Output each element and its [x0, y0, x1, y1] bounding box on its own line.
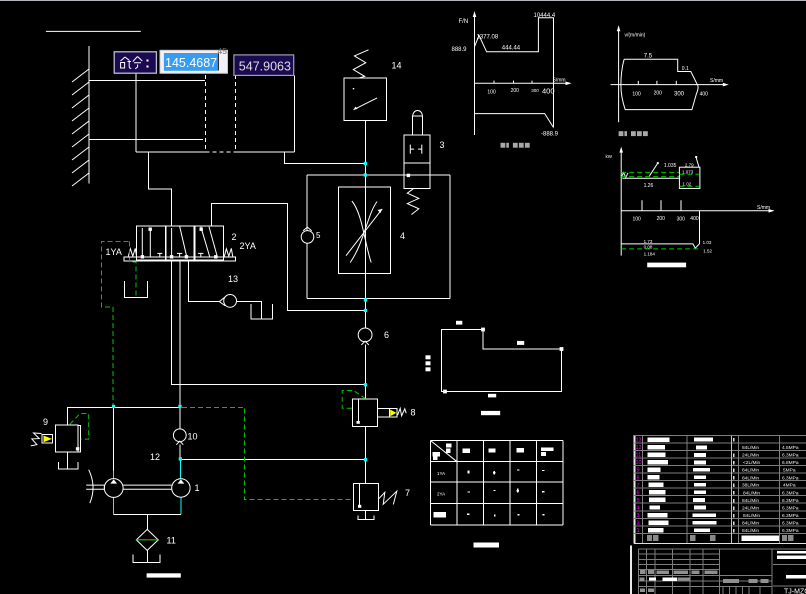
wire valve 2 B-port around enclosure [211, 204, 365, 311]
wire P-node through check valve 10 [179, 407, 181, 428]
svg-text:2YA: 2YA [437, 492, 445, 497]
svg-text:10: 10 [188, 432, 198, 442]
svg-text:1.073: 1.073 [682, 170, 694, 175]
svg-text:200: 200 [511, 88, 520, 94]
caption bar bottom left [147, 573, 181, 577]
fig2 ticks [637, 81, 639, 85]
fig1 y axis [474, 14, 476, 135]
fig1 load curve [475, 18, 554, 128]
main tank [133, 555, 160, 563]
svg-text:444.44: 444.44 [502, 46, 521, 52]
svg-text:400: 400 [690, 216, 699, 222]
stepped block diagram [426, 321, 564, 415]
svg-text:13: 13 [636, 438, 642, 444]
wire relief valve 9 to P-node [68, 407, 181, 425]
pump 2 (left) [104, 479, 123, 498]
svg-text:3: 3 [440, 140, 445, 150]
fig1 x axis [475, 82, 571, 84]
grip node white enclosure top [407, 174, 410, 177]
cycle table caption highlighted [474, 543, 499, 548]
wire check valve 6 to valve 8 [365, 345, 367, 400]
relief valve 9 [31, 425, 81, 452]
svg-text:547.9063: 547.9063 [239, 60, 291, 74]
svg-text:7: 7 [405, 488, 410, 498]
wire cylinder A-port to valve 2 [148, 152, 171, 226]
fig3 y axis [620, 149, 622, 255]
svg-text:10: 10 [636, 460, 642, 466]
parts list header [647, 535, 793, 541]
svg-text:300: 300 [677, 217, 686, 223]
pump shaft link [123, 484, 172, 486]
cylinder rod lower line [89, 138, 203, 140]
svg-text:45: 45 [218, 46, 228, 56]
svg-text:11: 11 [167, 536, 176, 546]
throttle valve 4 [339, 187, 391, 273]
solenoid 2YA coil [224, 248, 233, 256]
svg-text:6: 6 [384, 330, 389, 340]
svg-text:84L/Min: 84L/Min [742, 468, 759, 474]
svg-text:12: 12 [150, 452, 160, 462]
velocity diagram figure 2 [611, 25, 729, 136]
wire junction to valves 7-8 line [180, 459, 366, 461]
title block [630, 546, 806, 594]
svg-text:4: 4 [400, 231, 405, 241]
wire valve 9 to tank [67, 452, 69, 469]
fig2 y axis [618, 28, 620, 122]
svg-text:S/mm: S/mm [757, 205, 770, 211]
check valve 6 [358, 328, 372, 342]
svg-text:300: 300 [531, 88, 539, 93]
svg-text:84L/Min: 84L/Min [742, 475, 759, 481]
svg-text:13: 13 [228, 274, 238, 284]
pilot line green P-node to valve 7 [182, 407, 354, 499]
check valve 5 [301, 231, 314, 244]
fig3 ticks [641, 200, 643, 211]
wall (fixed support) [88, 46, 90, 183]
svg-text:8: 8 [411, 408, 416, 418]
svg-text:TJ-MZCP1: TJ-MZCP1 [784, 589, 806, 594]
svg-text:-888.9: -888.9 [541, 132, 559, 138]
svg-text:4.5MPa: 4.5MPa [782, 445, 799, 451]
svg-text:6.3MPa: 6.3MPa [782, 521, 799, 527]
electric motor coupling [89, 470, 93, 504]
svg-text:6.8MPa: 6.8MPa [782, 460, 799, 466]
check valve 13 [224, 295, 237, 308]
svg-text:200: 200 [657, 216, 666, 222]
svg-text:7: 7 [637, 483, 640, 489]
svg-text:10444.4: 10444.4 [534, 13, 556, 19]
fig1 ticks [493, 81, 495, 84]
main vertical line through throttle unit [365, 175, 367, 298]
parts list pressure values [782, 445, 799, 534]
svg-text:5: 5 [637, 498, 640, 504]
svg-text:v/(m/min): v/(m/min) [625, 33, 646, 39]
window top border [0, 0, 806, 2]
fig3 x axis [621, 210, 772, 212]
svg-text:14: 14 [392, 61, 402, 71]
svg-text:kW: kW [606, 154, 613, 159]
fig3 caption highlighted [647, 263, 686, 268]
svg-text:S/mm: S/mm [553, 78, 566, 84]
pilot line green valve 8 [342, 391, 365, 409]
fig3 bottom power line [621, 211, 699, 248]
dynamic input field 145.4687 [160, 50, 228, 73]
svg-text:1: 1 [195, 483, 200, 493]
svg-text:1377.08: 1377.08 [477, 35, 499, 41]
svg-text:84L/Min: 84L/Min [743, 490, 760, 496]
svg-text:4: 4 [637, 506, 640, 512]
svg-text:888.9: 888.9 [452, 47, 468, 53]
hidden piston line dashed right [234, 75, 236, 152]
stray line top left [46, 30, 141, 32]
wire cylinder rod-end to relief valve 14 node [285, 152, 366, 163]
dynamic input field 547.9063 [234, 55, 294, 76]
fig2 velocity curve [621, 59, 698, 109]
svg-text:6.3MPa: 6.3MPa [782, 506, 799, 512]
svg-text:8: 8 [637, 475, 640, 481]
tank under valve 9 [58, 462, 78, 469]
svg-text:5MPa: 5MPa [783, 468, 796, 474]
svg-text:3: 3 [637, 513, 640, 519]
svg-text:2.79: 2.79 [685, 163, 694, 168]
svg-text:1YA: 1YA [106, 247, 122, 257]
svg-text:0.1: 0.1 [682, 66, 689, 72]
parts list row numbers [636, 438, 642, 535]
cylinder rod upper line [89, 79, 205, 81]
wire suction to filter 11 [146, 515, 148, 530]
hidden bottom edge dashed [206, 151, 236, 153]
svg-text:1.73: 1.73 [644, 239, 653, 244]
command prompt box [114, 52, 156, 73]
pilot operated valve 8 [353, 399, 407, 426]
power diagram figure 3 [606, 147, 775, 268]
wire enclosure bottom to check valve 6 [365, 298, 367, 328]
wire P-line valve 2 down to pump node [179, 261, 181, 407]
fig1 caption [501, 143, 530, 148]
svg-text:9: 9 [43, 417, 48, 427]
svg-text:6.3MPa: 6.3MPa [782, 475, 799, 481]
fig3 power line white [622, 177, 680, 179]
wire relief valve 14 to enclosure node [365, 121, 367, 175]
wire pump 2 riser [113, 407, 115, 470]
svg-text:1.26: 1.26 [644, 183, 654, 189]
wire valve 2 A-line down to node [172, 261, 366, 385]
svg-text:1YA: 1YA [437, 471, 445, 476]
wire check valve 13 to tank [237, 302, 262, 319]
pilot drain green to tank under valve 2 [129, 241, 136, 296]
svg-text:<2L/Min: <2L/Min [743, 460, 761, 466]
fig3 leader 1.035 [650, 163, 658, 176]
svg-text:1.03: 1.03 [703, 240, 712, 245]
drive shaft [86, 484, 104, 486]
wire valve 7 to tank [365, 510, 367, 519]
svg-text:1.035: 1.035 [664, 163, 677, 169]
svg-text:100: 100 [487, 90, 496, 96]
svg-text:F/N: F/N [459, 19, 469, 25]
filter 11 [136, 529, 158, 550]
svg-text:84L/Min: 84L/Min [742, 521, 759, 527]
svg-text:24L/Min: 24L/Min [742, 453, 759, 459]
directional valve 2 [137, 226, 166, 260]
parts list name blocks [648, 437, 717, 532]
svg-text:2YA: 2YA [240, 241, 256, 251]
svg-text:6: 6 [637, 490, 640, 496]
svg-text:400: 400 [700, 92, 709, 98]
svg-text:0.08: 0.08 [644, 245, 653, 250]
load diagram figure 1 [452, 11, 572, 148]
fig3 box right [679, 167, 700, 188]
svg-text:84L/Min: 84L/Min [743, 513, 760, 519]
svg-text:300: 300 [674, 92, 685, 98]
tank under check valve 13 [251, 304, 273, 319]
svg-text:1: 1 [637, 528, 640, 534]
svg-text:38L/Min: 38L/Min [742, 483, 759, 489]
sequence valve 7 [354, 483, 397, 510]
svg-text:6.3MPa: 6.3MPa [782, 528, 799, 534]
parts list table [634, 435, 806, 544]
tank under valve 2 [124, 281, 147, 298]
svg-text:5: 5 [316, 231, 321, 240]
svg-text:200: 200 [654, 91, 663, 97]
parts list flow values [742, 445, 761, 534]
wire check valve 10 to junction [179, 444, 181, 459]
svg-text:S/mm: S/mm [710, 78, 723, 84]
svg-text:84L/Min: 84L/Min [742, 498, 759, 504]
svg-text:6.3MPa: 6.3MPa [782, 513, 799, 519]
svg-text:84L/Min: 84L/Min [742, 528, 759, 534]
wire T-line valve 2 to check valve 13 [189, 261, 219, 302]
svg-text:12: 12 [636, 445, 642, 451]
svg-text:1.02: 1.02 [683, 182, 692, 187]
relief valve 14 [344, 50, 387, 121]
svg-text:1.52: 1.52 [703, 249, 712, 254]
fig3 bottom green dashed [621, 248, 701, 250]
pressure switch 3 [404, 111, 430, 215]
fig2 x axis [611, 84, 728, 86]
svg-text:145.4687: 145.4687 [165, 56, 217, 70]
grip nodes cyan [112, 162, 367, 462]
pump 1 (right) [172, 479, 190, 497]
pump suction lines [113, 497, 115, 514]
hidden piston line dashed left [205, 75, 207, 152]
svg-text:400: 400 [542, 87, 555, 96]
svg-text:9: 9 [637, 468, 640, 474]
wire filter to tank [146, 550, 148, 562]
fig3 power lines green dashed upper [621, 173, 628, 178]
svg-text:100: 100 [632, 92, 641, 98]
svg-text:7.5: 7.5 [644, 54, 653, 60]
pilot line green valve 9 [70, 414, 89, 440]
enclosure of speed control unit [307, 175, 450, 298]
svg-text:6.3MPa: 6.3MPa [782, 498, 799, 504]
svg-text:1.184: 1.184 [644, 251, 656, 256]
svg-text:2: 2 [637, 521, 640, 527]
wire pump 1 riser selected [180, 460, 182, 479]
svg-text:4MPa: 4MPa [783, 483, 796, 489]
wire valve 8 to valve 7 [365, 426, 367, 483]
svg-text:6.3MPa: 6.3MPa [782, 490, 799, 496]
parts list flow column marks [733, 438, 735, 533]
solenoid 1YA coil [128, 248, 136, 256]
fig2 caption [619, 131, 648, 136]
svg-text:100: 100 [633, 217, 642, 223]
svg-text:84L/Min: 84L/Min [742, 445, 759, 451]
tank under valve 7 [358, 515, 374, 519]
electromagnet action cycle table [431, 441, 564, 548]
pilot line green left to solenoid 1YA [102, 241, 129, 406]
svg-text:6.3MPa: 6.3MPa [782, 453, 799, 459]
svg-text:11: 11 [636, 453, 642, 459]
check valve 10 [173, 429, 186, 442]
svg-text:24L/Min: 24L/Min [742, 506, 759, 512]
cylinder body rectangle [135, 73, 137, 152]
svg-text:2: 2 [232, 232, 237, 242]
